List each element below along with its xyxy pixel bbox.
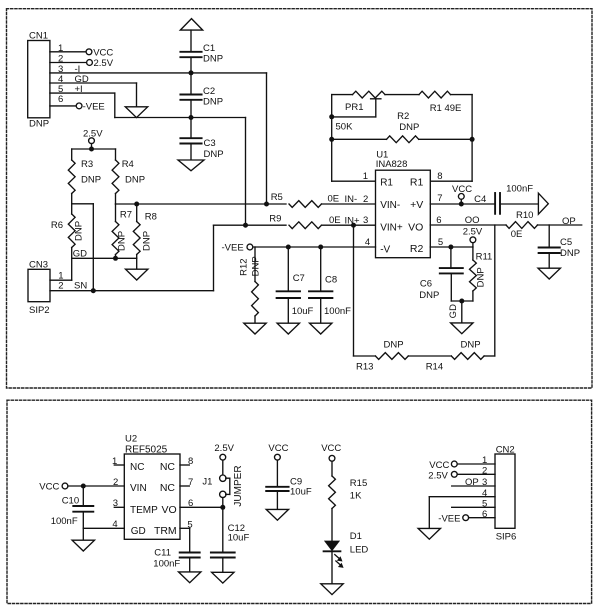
wire CN1 pin2 to 2.5V: [50, 62, 87, 64]
svg-text:REF5025: REF5025: [125, 445, 168, 456]
svg-text:R14: R14: [426, 361, 443, 372]
wire C5 top lead: [548, 225, 550, 248]
svg-text:DNP: DNP: [141, 231, 152, 251]
wire CN2 pin4 down: [428, 497, 430, 529]
svg-text:GD: GD: [448, 304, 459, 318]
svg-text:DNP: DNP: [461, 339, 481, 350]
resistor R10 0E: [506, 210, 538, 240]
wire U2 pin3 stub: [114, 506, 124, 508]
svg-text:2.5V: 2.5V: [214, 443, 234, 454]
svg-text:DNP: DNP: [125, 174, 145, 185]
ground under C11: [179, 572, 201, 583]
svg-text:SN: SN: [74, 280, 87, 291]
capacitor C6 DNP: [419, 247, 463, 301]
resistor R8: [133, 204, 157, 258]
power port 2.5V at CN2 pin2: [428, 470, 457, 481]
wire feedback bottom middle: [408, 355, 451, 357]
node junction C8 on -V line: [318, 245, 323, 250]
svg-text:-VEE: -VEE: [438, 514, 460, 525]
resistor R15 1K: [329, 476, 368, 509]
connector CN1: [28, 31, 64, 130]
svg-text:R10: R10: [516, 210, 533, 221]
capacitor C8 100nF: [309, 247, 351, 323]
svg-text:R6: R6: [51, 220, 63, 231]
wire CN1 pin6 to -VEE: [50, 105, 76, 107]
wire U1 pin6 VO to R10: [430, 215, 506, 226]
svg-text:+I: +I: [75, 84, 83, 95]
svg-text:2: 2: [363, 194, 368, 205]
power port VCC above C9: [268, 443, 288, 460]
svg-text:DNP: DNP: [204, 149, 224, 160]
capacitor C7 10uF: [277, 247, 314, 323]
node junction R8 top on IN- line: [134, 202, 139, 207]
capacitor C9 10uF: [266, 477, 312, 498]
wire CN3 pin1 to GD: [50, 279, 72, 281]
wire -I net CN1 pin3 horizontal: [50, 64, 267, 75]
svg-text:100nF: 100nF: [153, 559, 180, 570]
power port 2.5V at U1 pin5: [463, 227, 483, 247]
svg-text:CN1: CN1: [29, 31, 48, 42]
node junction SN: [91, 288, 96, 293]
wire CN1 pin4 GD: [50, 74, 137, 85]
svg-text:R8: R8: [145, 211, 157, 222]
svg-text:R7: R7: [120, 209, 132, 220]
wire C12 to ground: [222, 558, 224, 573]
node junction C7 on -V line: [286, 245, 291, 250]
wire CN2 pin4: [429, 496, 495, 498]
capacitor C2: [180, 86, 223, 107]
ground under C10: [72, 540, 94, 551]
ground under C7: [277, 323, 299, 334]
svg-text:-V: -V: [380, 245, 390, 256]
svg-text:PR1: PR1: [345, 102, 363, 113]
power port -VEE at U1 pin4: [222, 242, 253, 253]
node junction wiper on left rail: [329, 114, 334, 119]
svg-text:-VEE: -VEE: [83, 102, 105, 113]
wire feedback rail down: [494, 225, 496, 356]
wire CN1 pin1 to VCC: [50, 51, 86, 53]
wire CN2 pin1: [457, 463, 495, 465]
svg-text:C10: C10: [62, 496, 79, 507]
connector CN3: [28, 259, 63, 316]
resistor R14 DNP: [426, 339, 484, 372]
wire GD net horizontal: [72, 249, 137, 260]
svg-text:OP: OP: [562, 216, 576, 227]
power port VCC at CN1 pin1: [86, 47, 113, 58]
wire 2.5V to J1 pin1: [222, 460, 224, 475]
svg-text:OP: OP: [465, 477, 479, 488]
power port -VEE at CN2 pin6: [438, 514, 468, 525]
wire GD down to CN3 pin1: [71, 258, 73, 280]
wire pin8 net: [430, 171, 472, 182]
svg-text:2: 2: [482, 466, 487, 477]
wire gain network right rail: [471, 95, 473, 182]
svg-text:DNP: DNP: [117, 231, 128, 251]
power port VCC at U2 VIN: [39, 482, 68, 493]
svg-text:8: 8: [437, 171, 442, 182]
ground under C8: [310, 323, 332, 334]
voltage reference U2 REF5025: [112, 433, 193, 539]
svg-text:+V: +V: [410, 199, 423, 211]
svg-text:DNP: DNP: [203, 96, 223, 107]
svg-text:1K: 1K: [350, 490, 362, 501]
power port VCC at U1 pin7: [452, 184, 472, 204]
capacitor C10 100nF: [51, 486, 94, 540]
wire +I net bend down: [114, 93, 116, 117]
svg-text:VO: VO: [408, 222, 423, 234]
svg-text:VIN: VIN: [130, 483, 147, 494]
svg-text:R11: R11: [476, 251, 493, 262]
svg-text:4: 4: [365, 237, 370, 248]
wire feedback left rail: [353, 225, 355, 356]
power arrow up (supply flag): [180, 19, 202, 31]
resistor R1 49E: [419, 91, 461, 114]
wire C3 to ground: [190, 144, 192, 161]
svg-text:R12: R12: [239, 258, 250, 275]
capacitor C11 100nF: [153, 548, 199, 570]
svg-text:DNP: DNP: [203, 53, 223, 64]
svg-text:R5: R5: [271, 192, 283, 203]
frame box power section (decorative border): [7, 400, 592, 603]
power arrow right (supply flag): [538, 193, 548, 214]
svg-text:VCC: VCC: [93, 47, 113, 58]
wire R10 to OP: [538, 216, 582, 227]
wire CN3 pin2 SN: [50, 280, 93, 291]
connector CN2: [482, 445, 516, 543]
svg-text:R1: R1: [380, 178, 393, 189]
node junction -I / C1-C2: [189, 70, 194, 75]
wire top line middle: [385, 94, 419, 96]
svg-text:VCC: VCC: [268, 443, 288, 454]
node junction feedback tap on IN+: [351, 223, 356, 228]
wire IN- net horizontal: [116, 203, 287, 205]
svg-text:0E: 0E: [328, 193, 340, 204]
svg-text:CN3: CN3: [29, 259, 48, 270]
wire VO net down to C12: [222, 507, 224, 552]
svg-text:0E: 0E: [329, 215, 341, 226]
svg-text:VCC: VCC: [429, 460, 449, 471]
power port 2.5V at CN1 pin2: [87, 58, 114, 69]
wire 2.5V rail horizontal: [72, 148, 116, 150]
svg-text:C5: C5: [560, 237, 572, 248]
svg-text:VO: VO: [162, 504, 177, 516]
wire +I net vertical drop to IN+ line: [245, 118, 247, 226]
svg-text:DNP: DNP: [560, 248, 580, 259]
svg-text:NC: NC: [160, 461, 176, 473]
svg-text:GD: GD: [131, 526, 146, 537]
wire top line right: [451, 94, 473, 96]
wire C4 to flag: [500, 203, 539, 205]
power port 2.5V above R3 R4: [83, 128, 103, 143]
resistor R5 0E: [271, 192, 339, 207]
svg-text:SIP2: SIP2: [29, 305, 50, 316]
ground at CN2 pin4: [418, 528, 440, 539]
svg-text:2: 2: [58, 281, 63, 292]
svg-text:DNP: DNP: [476, 267, 487, 287]
svg-text:DNP: DNP: [419, 290, 439, 301]
svg-text:J1: J1: [202, 477, 212, 488]
ground under R8: [126, 269, 148, 280]
wire SN to R9: [214, 224, 287, 226]
svg-text:2.5V: 2.5V: [94, 58, 114, 69]
svg-text:VCC: VCC: [39, 482, 59, 493]
jumper J1: [202, 465, 244, 506]
svg-text:7: 7: [437, 193, 442, 204]
svg-text:R9: R9: [269, 214, 281, 225]
wire R15 to D1: [331, 509, 333, 541]
svg-text:5: 5: [438, 237, 443, 248]
node junction J1 C12 VO: [220, 505, 225, 510]
node junction R2 right: [470, 137, 475, 142]
ground under CN1 GD: [125, 107, 147, 118]
wire top line left: [332, 94, 353, 96]
wire U2 pin1 stub: [114, 464, 124, 466]
svg-text:OO: OO: [465, 215, 480, 226]
wire feedback bottom right: [484, 355, 495, 357]
node junction 2.5V rail: [89, 147, 94, 152]
capacitor C5 DNP: [539, 237, 580, 259]
svg-text:100nF: 100nF: [506, 184, 533, 195]
svg-text:2.5V: 2.5V: [463, 227, 483, 238]
svg-text:VCC: VCC: [321, 443, 341, 454]
svg-text:R2: R2: [397, 111, 409, 122]
wire +I net horizontal: [115, 117, 246, 119]
svg-text:DNP: DNP: [399, 122, 419, 133]
svg-text:100nF: 100nF: [324, 306, 351, 317]
node junction C10 on VIN: [81, 484, 86, 489]
capacitor C12 10uF: [211, 523, 250, 558]
wire C6 R11 bottom link: [451, 300, 473, 302]
svg-text:VIN+: VIN+: [380, 223, 403, 234]
wire arrow to C1: [190, 30, 192, 52]
svg-text:C6: C6: [420, 278, 432, 289]
node junction R2 left: [329, 137, 334, 142]
svg-text:10uF: 10uF: [292, 306, 314, 317]
wire C1 to C2: [190, 57, 192, 94]
svg-text:TEMP: TEMP: [130, 505, 158, 516]
svg-text:C11: C11: [154, 548, 171, 559]
frame box analog section (decorative border): [7, 9, 593, 388]
wire -I net vertical drop to IN- line: [266, 73, 268, 204]
svg-text:-VEE: -VEE: [222, 242, 244, 253]
wire VCC to U2 pin2: [68, 485, 124, 487]
wire C5 to ground: [548, 253, 550, 268]
svg-text:JUMPER: JUMPER: [233, 465, 244, 506]
svg-text:DNP: DNP: [81, 174, 101, 185]
wire pin1 net: [332, 171, 376, 182]
potentiometer PR1 50K: [332, 91, 385, 132]
ground under C5: [538, 268, 560, 279]
svg-text:R1 49E: R1 49E: [430, 103, 462, 114]
resistor R13 DNP: [356, 339, 408, 372]
wire VCC to C9: [276, 460, 278, 487]
svg-text:6: 6: [58, 94, 63, 105]
svg-text:6: 6: [436, 215, 441, 226]
resistor R3: [68, 149, 101, 204]
wire J1 pin2 to VO net: [222, 498, 224, 508]
wire R3 bottom branch to SN: [72, 204, 94, 291]
svg-text:IN-: IN-: [345, 194, 358, 205]
wire U2 pin6 VO net: [180, 506, 223, 508]
wire U2 pin8 stub: [180, 464, 189, 466]
wire CN2 pin3 OP: [452, 477, 495, 488]
wire C2 to C3: [190, 100, 192, 138]
node junction +I drop on IN+ line: [243, 223, 248, 228]
svg-text:DNP: DNP: [73, 221, 84, 241]
svg-text:INA828: INA828: [376, 159, 408, 170]
svg-text:R3: R3: [81, 159, 93, 170]
wire U2 pin4 GD: [83, 527, 124, 529]
wire U1 pin7 +V: [430, 193, 495, 204]
svg-text:DNP: DNP: [251, 256, 262, 276]
ground under R12: [244, 323, 266, 334]
svg-text:C7: C7: [293, 273, 305, 284]
node junction VCC on pin7 line: [459, 202, 464, 207]
resistor R6: [51, 204, 84, 258]
svg-text:NC: NC: [160, 482, 176, 494]
svg-text:C3: C3: [204, 138, 216, 149]
wire U2 pin5 TRM: [180, 527, 190, 529]
resistor R12 DNP: [239, 247, 262, 323]
ground under C12: [212, 572, 234, 583]
ground under D1: [321, 584, 343, 595]
power port -VEE at CN1 pin6: [76, 102, 105, 113]
LED D1: [324, 531, 369, 568]
svg-text:CN2: CN2: [496, 445, 515, 456]
power port 2.5V above J1: [214, 443, 234, 460]
ground under C3: [178, 160, 204, 171]
wire R5 to U1 pin2 IN-: [322, 194, 376, 205]
svg-text:SIP6: SIP6: [496, 532, 517, 543]
wire C11 to ground: [189, 558, 191, 572]
resistor R7: [112, 204, 132, 258]
svg-text:VIN-: VIN-: [380, 200, 400, 211]
svg-text:DNP: DNP: [29, 119, 49, 130]
wire R9 to U1 pin3 IN+: [322, 215, 376, 226]
wire CN2 pin5 stub: [452, 506, 495, 508]
wire TRM down to C11: [189, 528, 191, 552]
wire VCC to R15: [331, 461, 333, 476]
svg-text:R13: R13: [356, 361, 373, 372]
wire U2 pin7 stub: [180, 485, 189, 487]
power port VCC at CN2 pin1: [429, 460, 457, 471]
svg-text:1: 1: [363, 171, 368, 182]
wire CN2 pin2: [457, 473, 495, 475]
wire GD drop to ground near R8: [136, 258, 138, 269]
node junction R7 bottom on GD line: [113, 256, 118, 261]
capacitor C1: [180, 43, 223, 64]
svg-text:2.5V: 2.5V: [428, 470, 448, 481]
node junction C6/R11 bottom GD: [459, 299, 464, 304]
wire GD drop to ground: [136, 83, 138, 107]
in-amp U1 INA828: [376, 150, 431, 258]
svg-text:GD: GD: [73, 249, 87, 260]
svg-text:U2: U2: [125, 433, 137, 444]
node junction C6 on pin5 line: [448, 245, 453, 250]
svg-text:100nF: 100nF: [51, 516, 78, 527]
svg-text:50K: 50K: [336, 122, 354, 133]
svg-text:10uF: 10uF: [290, 487, 312, 498]
wire feedback bottom left: [354, 355, 376, 357]
wire C9 to ground: [276, 491, 278, 509]
wire CN2 pin6: [469, 517, 495, 519]
wire D1 to ground: [331, 551, 333, 584]
power port VCC above R15: [321, 443, 341, 461]
svg-text:TRM: TRM: [154, 525, 177, 537]
resistor R2 DNP: [332, 111, 472, 143]
svg-text:D1: D1: [350, 531, 362, 542]
node junction +I / C2-C3: [189, 115, 194, 120]
capacitor C4 100nF: [474, 184, 533, 214]
resistor R9 0E: [269, 214, 340, 229]
svg-text:LED: LED: [350, 544, 369, 555]
svg-text:R1: R1: [410, 177, 424, 189]
wire 2.5V to rail: [91, 144, 93, 149]
resistor R4: [112, 149, 145, 204]
svg-text:DNP: DNP: [384, 339, 404, 350]
ground under C9: [266, 509, 288, 520]
svg-text:R2: R2: [410, 243, 424, 255]
svg-text:R4: R4: [122, 159, 134, 170]
svg-text:NC: NC: [130, 462, 144, 473]
wire +I net CN1 pin5: [50, 84, 115, 95]
wire U1 pin4 -V net: [253, 237, 376, 248]
svg-text:R15: R15: [350, 478, 367, 489]
svg-text:C8: C8: [325, 275, 337, 286]
svg-text:C4: C4: [474, 194, 486, 205]
resistor R11 DNP: [470, 247, 493, 301]
svg-text:3: 3: [363, 215, 368, 226]
svg-text:10uF: 10uF: [228, 533, 250, 544]
wire SN net vertical up: [213, 225, 215, 291]
ground under R11: [451, 323, 473, 334]
node junction -I drop on IN- line: [264, 202, 269, 207]
wire GD drop: [448, 301, 462, 323]
capacitor C3: [180, 138, 223, 160]
wire U1 pin5 R2ref: [430, 237, 473, 248]
wire SN net horizontal: [93, 290, 213, 292]
wire gain network left rail: [331, 95, 333, 182]
svg-text:0E: 0E: [511, 229, 523, 240]
